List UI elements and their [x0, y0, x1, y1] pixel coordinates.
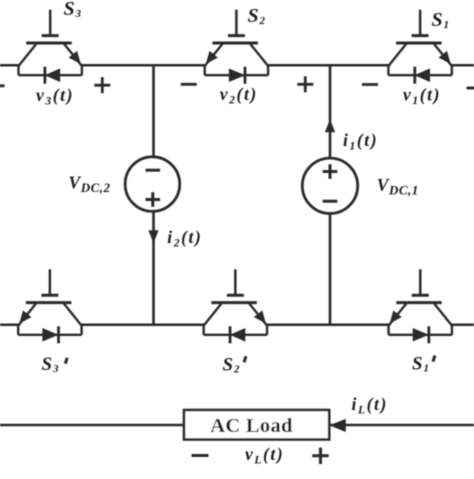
svg-text:i2(t): i2(t): [167, 227, 202, 250]
svg-text:vL(t): vL(t): [245, 444, 284, 467]
svg-text:v3(t): v3(t): [36, 85, 74, 108]
svg-text:v1(t): v1(t): [403, 85, 441, 108]
svg-text:v2(t): v2(t): [220, 84, 258, 107]
svg-text:AC Load: AC Load: [210, 415, 293, 437]
svg-text:iL(t): iL(t): [352, 394, 388, 417]
svg-text:i1(t): i1(t): [343, 130, 378, 153]
